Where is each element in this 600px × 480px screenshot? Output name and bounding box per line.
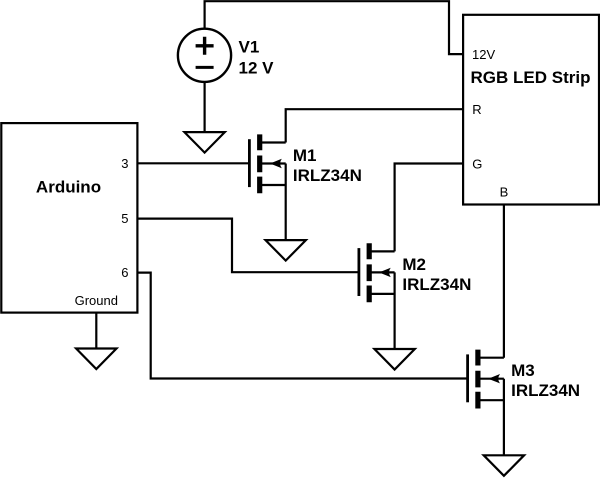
svg-text:3: 3 [121,156,128,171]
ground (below Arduino) [76,349,116,370]
ground (below M3) [484,455,524,476]
wire G pin to M2 drain [395,164,464,252]
transistor M3 IRLZ34N [468,350,504,456]
svg-text:12 V: 12 V [239,59,275,78]
ground (below M1) [266,240,306,261]
wire Arduino Ground pin to ground [95,313,97,349]
wire Arduino pin 3 to M1 gate [137,162,249,164]
svg-text:RGB LED Strip: RGB LED Strip [471,68,591,87]
transistor M1 IRLZ34N [249,134,285,240]
svg-text:Ground: Ground [75,293,118,308]
voltage source V1 [178,29,231,82]
svg-text:R: R [472,102,481,117]
svg-text:12V: 12V [472,47,495,62]
wire Arduino pin 6 to M3 gate [137,273,467,379]
ground (below V1) [184,132,224,153]
ground (below M2) [374,349,414,370]
wire V1 plus to 12V pin of RGB LED Strip [205,1,464,54]
svg-text:G: G [472,156,482,171]
wire V1 minus to ground [204,82,206,132]
wire M1 drain to R pin [286,109,463,142]
wire B pin to M3 drain [503,205,505,358]
Arduino box [1,123,137,313]
transistor M2 IRLZ34N [359,243,395,349]
svg-text:V1: V1 [239,37,260,56]
svg-text:5: 5 [121,211,128,226]
svg-text:M3: M3 [511,361,535,380]
svg-text:6: 6 [121,265,128,280]
RGB LED Strip box [463,15,599,205]
svg-text:IRLZ34N: IRLZ34N [402,275,471,294]
svg-text:B: B [500,184,509,199]
svg-text:IRLZ34N: IRLZ34N [293,166,362,185]
svg-text:M2: M2 [402,255,426,274]
svg-text:Arduino: Arduino [36,178,101,197]
wire Arduino pin 5 to M2 gate [137,219,359,273]
svg-text:M1: M1 [293,146,317,165]
svg-text:IRLZ34N: IRLZ34N [511,381,580,400]
